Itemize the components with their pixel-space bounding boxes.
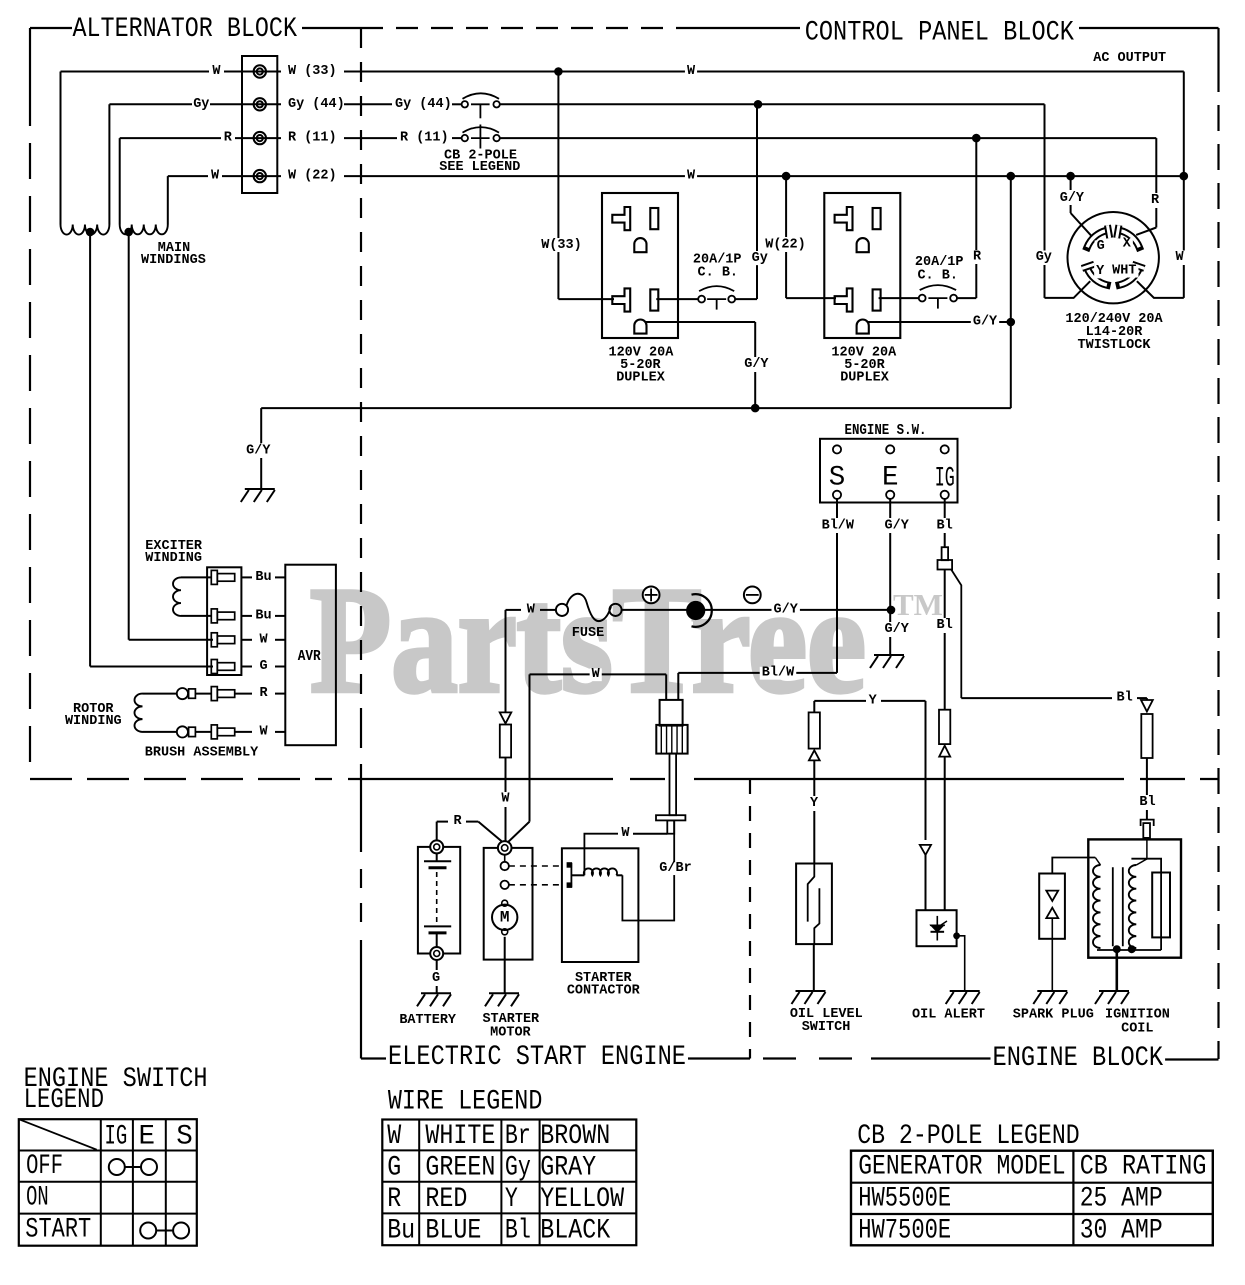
starter contactor box bbox=[562, 848, 639, 962]
oil level switch box bbox=[796, 864, 832, 945]
svg-text:IG: IG bbox=[105, 1121, 128, 1152]
svg-text:W: W bbox=[259, 632, 268, 647]
switch hole IG bbox=[941, 445, 949, 453]
ground oil level switch bbox=[792, 991, 826, 1004]
primary winding wave bbox=[1093, 865, 1101, 948]
svg-text:Gy: Gy bbox=[1036, 250, 1052, 265]
main winding 1 bbox=[60, 72, 62, 225]
bullet connector Bl bbox=[1141, 820, 1154, 826]
svg-text:Bl: Bl bbox=[1116, 691, 1132, 706]
svg-text:BATTERY: BATTERY bbox=[399, 1013, 457, 1028]
junction coil bbox=[1128, 945, 1136, 953]
svg-text:WINDING: WINDING bbox=[65, 714, 122, 729]
wire Bl into coil bbox=[1146, 838, 1148, 859]
wire W row bbox=[61, 71, 210, 73]
svg-text:C. B.: C. B. bbox=[917, 269, 958, 284]
wire Bl/W from S bbox=[836, 499, 838, 518]
label W bbox=[685, 65, 697, 78]
contactor contacts bbox=[570, 863, 572, 888]
svg-text:GREEN: GREEN bbox=[425, 1153, 495, 1184]
contact b bbox=[501, 881, 509, 889]
wire to ground bbox=[504, 937, 506, 993]
svg-text:W: W bbox=[501, 791, 510, 806]
twistlock slot G bbox=[1087, 230, 1107, 247]
wire Gy drop to CB1 bbox=[756, 104, 758, 251]
twistlock slot W bbox=[1120, 268, 1140, 285]
disconnect triangle bbox=[809, 750, 820, 760]
svg-text:W: W bbox=[212, 64, 221, 79]
label W bbox=[1173, 252, 1185, 265]
label R bbox=[971, 251, 983, 264]
svg-text:W: W bbox=[592, 667, 601, 682]
svg-text:CB 2-POLE LEGEND: CB 2-POLE LEGEND bbox=[857, 1121, 1079, 1152]
svg-text:Bl/W: Bl/W bbox=[762, 665, 795, 680]
connector splice bbox=[942, 547, 949, 560]
svg-text:ENGINE S.W.: ENGINE S.W. bbox=[845, 423, 927, 439]
svg-text:Bu: Bu bbox=[255, 608, 271, 623]
wire to ground bbox=[1116, 950, 1119, 991]
svg-text:TM: TM bbox=[893, 587, 943, 622]
terminal 3 bbox=[254, 132, 266, 144]
wire Bl/W horizontal bbox=[678, 672, 837, 674]
svg-text:W: W bbox=[687, 169, 696, 184]
svg-text:Bl: Bl bbox=[505, 1216, 531, 1247]
ground engine switch bbox=[870, 655, 904, 668]
svg-text:WHITE: WHITE bbox=[425, 1121, 495, 1152]
core line bbox=[1112, 867, 1114, 946]
svg-text:25 AMP: 25 AMP bbox=[1080, 1184, 1163, 1215]
junction coil bbox=[1113, 945, 1121, 953]
svg-text:AC OUTPUT: AC OUTPUT bbox=[1093, 51, 1166, 66]
label G/Y bbox=[742, 358, 770, 371]
svg-text:SWITCH: SWITCH bbox=[802, 1020, 851, 1035]
connector sleeve Bl bbox=[939, 710, 950, 744]
svg-text:R: R bbox=[973, 250, 982, 265]
svg-text:BLACK: BLACK bbox=[540, 1216, 610, 1247]
svg-text:BROWN: BROWN bbox=[540, 1121, 610, 1152]
disconnect diode Bl bbox=[1146, 698, 1148, 700]
svg-text:Bu: Bu bbox=[387, 1216, 415, 1247]
svg-text:RED: RED bbox=[425, 1184, 467, 1215]
ground battery bbox=[417, 993, 451, 1006]
exciter coil bbox=[173, 577, 181, 616]
divider start engine/engine block bbox=[749, 779, 751, 1059]
svg-text:HW5500E: HW5500E bbox=[858, 1184, 951, 1215]
oil alert SCR bbox=[936, 916, 938, 941]
junction R drop bbox=[972, 134, 981, 143]
junction winding1 tap bbox=[86, 228, 95, 237]
svg-text:R (11): R (11) bbox=[288, 131, 337, 146]
label W bbox=[590, 668, 602, 681]
svg-text:W: W bbox=[211, 169, 220, 184]
junction winding2 tap bbox=[124, 228, 133, 237]
svg-text:WIRE LEGEND: WIRE LEGEND bbox=[388, 1087, 543, 1118]
wire W(22) drop to duplex2 bbox=[785, 176, 787, 237]
svg-text:R: R bbox=[387, 1184, 401, 1215]
oil alert box bbox=[917, 910, 957, 946]
svg-text:TWISTLOCK: TWISTLOCK bbox=[1078, 338, 1152, 353]
HV tower bbox=[1152, 873, 1170, 938]
wire G/Y riser bbox=[1010, 176, 1012, 322]
wire W(22) bus bbox=[344, 175, 1184, 177]
circuit breaker 20A/1P CB1 bbox=[698, 286, 735, 310]
wire legend table bbox=[382, 1120, 636, 1246]
svg-text:GENERATOR MODEL: GENERATOR MODEL bbox=[858, 1152, 1065, 1183]
label X bbox=[1121, 238, 1133, 251]
secondary frame bbox=[1131, 859, 1161, 950]
ground G/Y bbox=[241, 489, 275, 502]
solenoid stem bbox=[670, 754, 677, 816]
label W bbox=[685, 170, 697, 183]
svg-text:DUPLEX: DUPLEX bbox=[840, 370, 890, 385]
brush bbox=[177, 688, 188, 699]
svg-text:G: G bbox=[1097, 239, 1105, 254]
wire Bl diagonal bbox=[951, 570, 961, 699]
svg-text:CB RATING: CB RATING bbox=[1080, 1152, 1207, 1183]
svg-text:G/Y: G/Y bbox=[973, 315, 998, 330]
svg-text:R: R bbox=[259, 686, 268, 701]
connector bbox=[211, 609, 234, 623]
svg-text:Y: Y bbox=[810, 796, 819, 811]
pilot lamp - bbox=[744, 587, 761, 604]
connector sleeve W bbox=[500, 725, 511, 758]
svg-text:START: START bbox=[25, 1215, 91, 1246]
label G/Y bbox=[772, 604, 800, 617]
svg-text:HW7500E: HW7500E bbox=[858, 1216, 951, 1247]
svg-text:IG: IG bbox=[935, 464, 955, 495]
main winding 1 coil bbox=[61, 225, 110, 235]
START position contacts bbox=[140, 1223, 156, 1239]
pilot lamp + bbox=[643, 587, 660, 604]
junction W33 drop bbox=[554, 67, 563, 76]
main winding 2 coil bbox=[120, 225, 168, 235]
connector sleeve Bl bbox=[1141, 714, 1152, 758]
svg-text:E: E bbox=[139, 1121, 156, 1152]
svg-text:G: G bbox=[387, 1153, 401, 1184]
svg-text:M: M bbox=[500, 908, 510, 926]
circuit breaker 20A/1P CB2 bbox=[919, 285, 957, 309]
ground ignition coil bbox=[1095, 991, 1129, 1004]
label W bbox=[499, 793, 511, 806]
wire winding1 tap to G bbox=[89, 232, 91, 667]
wire spark plug to coil bbox=[1052, 858, 1095, 874]
battery bbox=[418, 847, 460, 954]
wire Bl to coil bbox=[1146, 758, 1148, 795]
svg-text:Bl/W: Bl/W bbox=[822, 518, 855, 533]
wire Gy row bbox=[109, 103, 192, 105]
wire G/Br coil lead bbox=[622, 820, 674, 920]
svg-text:W: W bbox=[1175, 250, 1184, 265]
wire W(33) drop bbox=[557, 72, 559, 239]
svg-text:G: G bbox=[432, 971, 440, 986]
svg-text:WHT: WHT bbox=[1112, 263, 1136, 278]
wire Y from oil level switch bbox=[813, 701, 815, 713]
motor M bbox=[492, 905, 517, 930]
svg-text:W (22): W (22) bbox=[288, 169, 337, 184]
svg-text:Bu: Bu bbox=[255, 570, 271, 585]
wire Y to oil alert bbox=[925, 701, 927, 840]
label Bl bbox=[1137, 797, 1157, 810]
wire duplex1 hot to CB bbox=[656, 298, 698, 300]
svg-text:SPARK PLUG: SPARK PLUG bbox=[1013, 1008, 1094, 1023]
svg-text:R (11): R (11) bbox=[400, 131, 449, 146]
core line bbox=[1122, 867, 1124, 946]
wire R bus bbox=[500, 137, 1156, 139]
spark gap lower bbox=[1046, 908, 1058, 918]
diagonal bbox=[19, 1119, 97, 1150]
wire Y horizontal bbox=[814, 700, 866, 702]
svg-text:R: R bbox=[224, 131, 233, 146]
AVR box bbox=[285, 565, 336, 746]
svg-text:Gy (44): Gy (44) bbox=[288, 97, 345, 112]
svg-text:WINDING: WINDING bbox=[145, 551, 202, 566]
terminal block bbox=[242, 56, 277, 193]
main winding 2 bbox=[119, 138, 121, 224]
svg-text:R: R bbox=[1151, 193, 1160, 208]
svg-text:W: W bbox=[687, 64, 696, 79]
svg-text:S: S bbox=[176, 1121, 193, 1152]
label G bbox=[1095, 240, 1107, 253]
wire G bbox=[241, 666, 252, 668]
svg-text:Y: Y bbox=[505, 1184, 518, 1215]
wire W horizontal bbox=[530, 673, 667, 675]
wire W down to starter bbox=[529, 674, 531, 821]
svg-text:R: R bbox=[454, 814, 463, 829]
svg-text:MOTOR: MOTOR bbox=[490, 1026, 531, 1041]
block boundary frame bbox=[30, 27, 72, 29]
connector bbox=[211, 687, 234, 701]
svg-text:CONTACTOR: CONTACTOR bbox=[567, 983, 641, 998]
wire Bl from IG bbox=[944, 499, 946, 518]
connector bbox=[211, 660, 234, 674]
svg-text:W: W bbox=[527, 602, 536, 617]
secondary winding wave bbox=[1129, 865, 1136, 948]
svg-text:Y: Y bbox=[869, 693, 878, 708]
svg-text:BRUSH ASSEMBLY: BRUSH ASSEMBLY bbox=[145, 746, 259, 761]
wire Bl/W into solenoid bbox=[677, 673, 679, 700]
svg-text:W(33): W(33) bbox=[541, 238, 582, 253]
wire duplex1 ground G/Y bbox=[645, 321, 756, 323]
wire Gy bus bbox=[500, 103, 1045, 105]
label Gy bbox=[750, 252, 770, 265]
connector bbox=[211, 570, 234, 584]
junction E ground bbox=[887, 606, 896, 615]
wire G/Y from E bbox=[889, 499, 891, 518]
connector bbox=[211, 633, 234, 647]
twistlock slot Y bbox=[1087, 268, 1107, 285]
primary winding bbox=[1095, 858, 1100, 866]
wire W with connector bbox=[505, 610, 507, 712]
connector bbox=[211, 725, 234, 739]
svg-text:G/Y: G/Y bbox=[885, 518, 910, 533]
wire Bu bbox=[241, 615, 252, 617]
wire G/Y to slot G bbox=[1070, 176, 1072, 190]
svg-text:G/Y: G/Y bbox=[885, 622, 910, 637]
svg-text:G/Y: G/Y bbox=[774, 602, 799, 617]
wire E to ground bbox=[889, 610, 891, 622]
svg-text:GRAY: GRAY bbox=[540, 1153, 596, 1184]
svg-text:IGNITION: IGNITION bbox=[1105, 1008, 1170, 1023]
svg-text:ALTERNATOR BLOCK: ALTERNATOR BLOCK bbox=[73, 14, 298, 45]
svg-text:Gy: Gy bbox=[193, 97, 209, 112]
junction G/Y riser bbox=[1007, 172, 1016, 181]
switch terminal IG bbox=[941, 491, 949, 499]
ground starter bbox=[485, 993, 519, 1006]
junction G/Y bbox=[751, 404, 760, 413]
svg-text:Gy (44): Gy (44) bbox=[395, 97, 452, 112]
wire Bl horizontal bbox=[961, 697, 1112, 699]
label Gy bbox=[1034, 252, 1054, 265]
twistlock receptacle L14-20R bbox=[1068, 212, 1159, 303]
bottom bar bbox=[1097, 949, 1161, 951]
svg-text:Gy: Gy bbox=[752, 251, 768, 266]
wire W(22) row bbox=[168, 175, 208, 177]
wire to ground bbox=[813, 944, 815, 991]
svg-text:FUSE: FUSE bbox=[572, 626, 604, 641]
wire W coil lead bbox=[584, 834, 618, 876]
wire Gy to slot Y bbox=[1044, 104, 1046, 250]
wire R drop to CB2 bbox=[975, 138, 977, 250]
switch terminal S bbox=[833, 491, 841, 499]
switch terminal E bbox=[886, 491, 894, 499]
svg-text:WINDINGS: WINDINGS bbox=[141, 253, 206, 268]
wire W into solenoid bbox=[665, 674, 667, 700]
solenoid collar bbox=[656, 815, 685, 820]
svg-text:OFF: OFF bbox=[26, 1151, 63, 1182]
starter motor box bbox=[484, 848, 533, 960]
svg-text:20A/1P: 20A/1P bbox=[915, 255, 964, 270]
starter terminal bbox=[498, 841, 512, 855]
svg-text:Bl: Bl bbox=[936, 618, 952, 633]
contactor coil bbox=[584, 868, 617, 875]
junction W join bbox=[1180, 172, 1189, 181]
svg-text:X: X bbox=[1123, 237, 1132, 252]
terminal 4 bbox=[254, 170, 266, 182]
contact a bbox=[501, 862, 509, 870]
terminal 2 bbox=[254, 98, 266, 110]
secondary winding bbox=[1136, 859, 1147, 865]
svg-text:Gy: Gy bbox=[505, 1153, 531, 1184]
wire W bbox=[241, 639, 252, 641]
rotor winding coil bbox=[143, 693, 177, 695]
svg-text:LEGEND: LEGEND bbox=[24, 1085, 104, 1116]
connector strip bbox=[207, 567, 241, 675]
svg-text:COIL: COIL bbox=[1121, 1022, 1153, 1037]
spark plug box bbox=[1039, 874, 1065, 939]
switch hole S bbox=[833, 445, 841, 453]
CB legend table bbox=[851, 1151, 1213, 1246]
pilot lamp indicator bbox=[686, 601, 705, 620]
duplex receptacle 1 (120V 20A 5-20R) bbox=[602, 193, 678, 338]
ground spark plug bbox=[1033, 991, 1067, 1004]
OFF position contacts bbox=[109, 1159, 125, 1175]
label WHT bbox=[1110, 265, 1138, 278]
label W(33) bbox=[539, 239, 584, 252]
svg-text:CONTROL PANEL BLOCK: CONTROL PANEL BLOCK bbox=[805, 18, 1075, 49]
disconnect triangle bbox=[939, 746, 950, 757]
ignition coil box bbox=[1088, 839, 1181, 957]
ground oil alert bbox=[946, 991, 980, 1004]
svg-text:G/Y: G/Y bbox=[744, 357, 769, 372]
wire to ground bbox=[957, 936, 965, 991]
svg-text:YELLOW: YELLOW bbox=[540, 1184, 624, 1215]
junction Gy drop bbox=[754, 100, 763, 109]
svg-text:30 AMP: 30 AMP bbox=[1080, 1216, 1163, 1247]
svg-text:BLUE: BLUE bbox=[425, 1216, 481, 1247]
disconnect arrow bbox=[920, 845, 931, 855]
svg-text:OIL ALERT: OIL ALERT bbox=[912, 1008, 985, 1023]
label Y bbox=[808, 797, 820, 810]
oil level switch element bbox=[808, 864, 815, 922]
svg-text:E: E bbox=[882, 463, 899, 494]
wire R row bbox=[120, 137, 221, 139]
disconnect triangle bbox=[500, 712, 512, 723]
brush contact bbox=[189, 689, 196, 698]
wire Bu bbox=[241, 576, 252, 578]
brush contact bbox=[189, 727, 196, 736]
junction twistlock G tap bbox=[1066, 172, 1075, 181]
svg-text:W(22): W(22) bbox=[765, 237, 806, 252]
wire winding2 tap to W bbox=[128, 232, 130, 640]
svg-text:Bl: Bl bbox=[936, 518, 952, 533]
exciter winding coil bbox=[181, 576, 211, 578]
wire G/Y to ground bbox=[261, 407, 1011, 409]
terminal 1 bbox=[254, 65, 266, 77]
engine switch box bbox=[820, 439, 958, 503]
wire duplex2 hot to CB bbox=[879, 297, 919, 299]
label Y bbox=[1094, 266, 1106, 279]
wire Bl to oil alert bbox=[944, 570, 946, 619]
dashed link b bbox=[509, 884, 562, 886]
svg-text:AVR: AVR bbox=[298, 648, 321, 665]
divider alternator/control panel bbox=[360, 28, 362, 48]
wire W(33) bus bbox=[344, 71, 1184, 73]
label W(22) bbox=[763, 239, 808, 252]
twistlock slot X bbox=[1120, 230, 1140, 247]
wire G/Y ground drop bbox=[260, 408, 262, 443]
fuse element bbox=[567, 594, 612, 621]
duplex receptacle 2 (120V 20A 5-20R) bbox=[824, 193, 900, 338]
svg-text:Bl: Bl bbox=[1139, 795, 1155, 810]
switch hole E bbox=[886, 445, 894, 453]
svg-text:G/Y: G/Y bbox=[246, 443, 271, 458]
connector sleeve Y bbox=[809, 712, 820, 748]
svg-text:ELECTRIC START ENGINE: ELECTRIC START ENGINE bbox=[388, 1042, 686, 1073]
spark gap upper bbox=[1046, 891, 1058, 901]
label ENGINE BLOCK bbox=[991, 1046, 1166, 1072]
junction oil alert out bbox=[953, 932, 960, 939]
wire W to slot WHT bbox=[1183, 72, 1185, 251]
fuse line bbox=[506, 609, 522, 611]
svg-text:G/Br: G/Br bbox=[659, 861, 691, 876]
wire G to ground bbox=[436, 960, 438, 970]
svg-text:G/Y: G/Y bbox=[1060, 191, 1085, 206]
junction duplex2 drop bbox=[782, 172, 791, 181]
label ELECTRIC START ENGINE bbox=[386, 1045, 688, 1071]
junction G/Y riser bbox=[1007, 318, 1016, 327]
fuse terminal bbox=[556, 604, 568, 616]
svg-text:ENGINE BLOCK: ENGINE BLOCK bbox=[993, 1043, 1164, 1074]
legend table bbox=[19, 1119, 197, 1246]
svg-text:SEE LEGEND: SEE LEGEND bbox=[439, 160, 520, 175]
label Bl/W bbox=[760, 667, 797, 680]
wire to pilot lamps bbox=[622, 609, 891, 611]
wire R bbox=[436, 822, 438, 841]
rotor coil bbox=[134, 694, 142, 732]
svg-text:Y: Y bbox=[1096, 264, 1105, 279]
svg-text:W: W bbox=[387, 1121, 401, 1152]
wire R to slot X bbox=[1155, 138, 1157, 193]
